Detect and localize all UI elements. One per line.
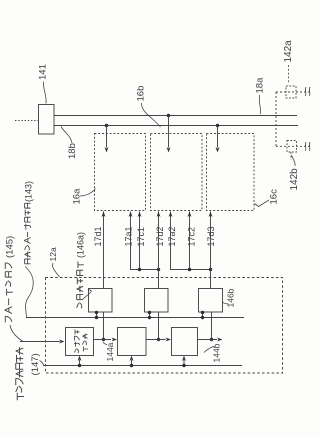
SR1 kana text シフト/レジスタ bbox=[74, 329, 80, 353]
leader 142b bbox=[292, 155, 296, 166]
left label: output enable (143) bbox=[24, 203, 31, 263]
arrow down j2 bbox=[167, 147, 171, 153]
svg-text:141: 141 bbox=[38, 64, 49, 80]
arrow up 17a2 bbox=[169, 212, 173, 218]
wire drop j2 bbox=[168, 116, 170, 148]
shift clock line 147 bbox=[43, 365, 242, 367]
wire SR2-SR3 bbox=[146, 339, 166, 341]
label 17c2 bbox=[187, 227, 197, 247]
leader 16b bbox=[141, 103, 160, 127]
arrow into SR3 bbox=[166, 338, 172, 342]
stub C to OE bbox=[202, 312, 204, 318]
pixel block 16a bbox=[95, 134, 146, 211]
node dot B' bbox=[157, 338, 160, 341]
scan driver block 141 bbox=[39, 105, 55, 135]
svg-text:16b: 16b bbox=[136, 86, 147, 102]
left label: shift clock bbox=[16, 347, 24, 400]
gate line 18b bbox=[54, 125, 298, 127]
arrow up 17a1 bbox=[129, 212, 133, 218]
signal line 17d1 bbox=[103, 212, 105, 289]
branch A vertical bbox=[275, 92, 277, 146]
arrow up 17d2 bbox=[157, 212, 161, 218]
node dots stub A bbox=[95, 311, 98, 314]
svg-text:18a: 18a bbox=[255, 77, 266, 94]
leader shift clock bbox=[40, 361, 44, 366]
signal line 17a1 bbox=[131, 212, 159, 270]
svg-text:142a: 142a bbox=[283, 40, 294, 63]
junction dot j1 on 18b bbox=[105, 124, 108, 127]
svg-text:16c: 16c bbox=[269, 189, 280, 205]
shift register stage SR2 bbox=[118, 328, 147, 356]
leader 18b bbox=[61, 127, 72, 144]
leader 16c bbox=[255, 200, 270, 207]
arrow down j3 bbox=[216, 147, 220, 153]
signal line 17c2 bbox=[189, 212, 191, 270]
signal line 17d2 bbox=[158, 212, 160, 289]
pixel element on branch A bbox=[286, 86, 296, 98]
leader start pulse bbox=[10, 325, 23, 342]
label 16a bbox=[72, 188, 83, 205]
shift register stage SR1 bbox=[66, 328, 94, 356]
pixel element on branch B bbox=[287, 141, 297, 153]
node dot A' bbox=[102, 338, 105, 341]
arrow up 17d3 bbox=[209, 212, 213, 218]
chain line into 141 bbox=[15, 120, 38, 122]
output enable line 143 bbox=[26, 317, 244, 319]
leader 16a bbox=[80, 189, 96, 197]
node dot rail2/17d3 bbox=[209, 268, 212, 271]
leader 144b bbox=[204, 346, 215, 353]
leader 144a bbox=[103, 342, 107, 345]
leader 146b bbox=[223, 302, 229, 304]
label 141 bbox=[38, 64, 49, 80]
label 142b bbox=[289, 168, 300, 191]
svg-text:17d2: 17d2 bbox=[155, 226, 165, 246]
junction dot j2 on 18a bbox=[167, 114, 170, 117]
label 16b bbox=[136, 86, 147, 102]
right pixel branch A (dashed) bbox=[276, 91, 312, 93]
signal line 17d3 bbox=[210, 212, 212, 289]
junction dot j3 on 18b bbox=[216, 124, 219, 127]
label 16c bbox=[269, 189, 280, 205]
stub B to OE bbox=[149, 312, 151, 318]
clock stub SR3 bbox=[183, 360, 185, 366]
svg-text:(146a): (146a) bbox=[76, 232, 86, 258]
right pixel branch B (dashed) bbox=[276, 145, 312, 147]
svg-text:17d3: 17d3 bbox=[206, 226, 216, 246]
label 17c1 bbox=[136, 227, 146, 247]
pulse width setting block 146 (C) bbox=[199, 289, 223, 313]
node dot 17c1/rail1 bbox=[138, 268, 141, 271]
svg-text:(143): (143) bbox=[24, 181, 34, 202]
svg-text:(147): (147) bbox=[30, 353, 41, 375]
shift register stage SR3 bbox=[172, 328, 198, 356]
clock stub SR1 bbox=[79, 360, 81, 366]
wire SR1-SR2 bbox=[94, 339, 112, 341]
gate line 18a bbox=[54, 115, 297, 117]
label 17a2 bbox=[167, 226, 177, 246]
node dot 17c2/rail2 bbox=[188, 268, 191, 271]
label 17a1 bbox=[124, 226, 134, 246]
arrow SR3 out bbox=[217, 338, 223, 342]
signal line 17a2 bbox=[171, 212, 211, 270]
stub below branch B bbox=[290, 152, 292, 160]
leader 12a bbox=[53, 263, 60, 277]
break marks branch B bbox=[305, 142, 310, 151]
clock stub SR2 bbox=[131, 360, 133, 366]
leader 146a bbox=[83, 289, 92, 299]
svg-text:17a1: 17a1 bbox=[124, 226, 134, 246]
svg-text:142b: 142b bbox=[289, 168, 300, 191]
svg-text:12a: 12a bbox=[48, 247, 58, 261]
data driver block 12a (dashed) bbox=[46, 278, 283, 374]
wire 146A to SR rail bbox=[103, 312, 105, 340]
label 17d2 bbox=[155, 226, 165, 246]
wire 146B to SR rail bbox=[158, 312, 160, 340]
label 12a bbox=[48, 247, 58, 261]
svg-text:17c1: 17c1 bbox=[136, 227, 146, 247]
signal line 17c1 bbox=[139, 212, 141, 270]
svg-text:18b: 18b bbox=[67, 143, 78, 159]
svg-text:17c2: 17c2 bbox=[187, 227, 197, 247]
label 142a bbox=[283, 40, 294, 63]
pixel block 16b bbox=[151, 134, 203, 211]
node dot C' bbox=[210, 338, 213, 341]
node dots stub B bbox=[148, 311, 151, 314]
svg-text:17d1: 17d1 bbox=[93, 226, 103, 246]
arrow down j1 bbox=[105, 147, 109, 153]
label 144a bbox=[105, 342, 115, 361]
start pulse line 145 bbox=[20, 341, 60, 343]
wire 146C to SR rail bbox=[211, 312, 213, 340]
node dots stub C bbox=[201, 311, 204, 314]
pulse width setting block 146 (B) bbox=[145, 289, 169, 313]
svg-text:(145): (145) bbox=[5, 236, 16, 258]
break marks branch A bbox=[305, 87, 310, 96]
left label: start pulse (145) bbox=[5, 263, 13, 323]
label 18b bbox=[67, 143, 78, 159]
svg-text:146b: 146b bbox=[226, 288, 236, 307]
leader 141 bbox=[43, 82, 46, 104]
svg-text:17a2: 17a2 bbox=[167, 226, 177, 246]
node dot rail1/17d2 bbox=[157, 268, 160, 271]
pixel block 16c bbox=[207, 134, 255, 211]
leader output enable bbox=[25, 267, 33, 318]
label (146a) with kana パルス幅設定 bbox=[77, 262, 84, 309]
svg-text:144a: 144a bbox=[105, 342, 115, 361]
leader 18a bbox=[259, 95, 260, 114]
arrow up 17d1 bbox=[102, 212, 106, 218]
arrow up 17c1 bbox=[138, 212, 142, 218]
arrow into SR1 bbox=[59, 340, 65, 344]
label 17d3 bbox=[206, 226, 216, 246]
arrow into SR2 bbox=[112, 338, 118, 342]
label 144b bbox=[212, 343, 222, 362]
wire SR3 out bbox=[198, 339, 218, 341]
label 18a bbox=[255, 77, 266, 94]
wire drop j3 bbox=[217, 126, 219, 148]
pulse width setting block 146 (A) bbox=[89, 289, 113, 313]
left label: (147) bbox=[30, 353, 41, 375]
leader 142a (dashed) bbox=[288, 65, 290, 84]
label 146b bbox=[226, 288, 236, 307]
wire drop j1 bbox=[106, 126, 108, 148]
label 17d1 bbox=[93, 226, 103, 246]
stub A to OE bbox=[96, 312, 98, 318]
arrow up 17c2 bbox=[188, 212, 192, 218]
